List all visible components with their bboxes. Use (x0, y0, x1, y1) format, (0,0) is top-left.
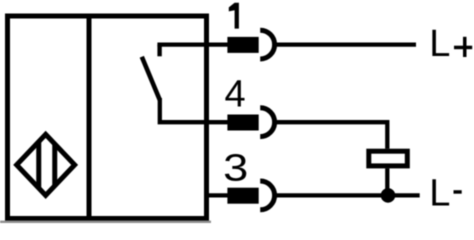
wire pin 1 to L+ (276, 42, 416, 46)
bottom edge artifact (0, 221, 211, 223)
svg-text:L: L (429, 23, 450, 65)
pin 3 socket arc (260, 181, 274, 210)
wire pin 3 to L- (276, 193, 420, 197)
junction dot (381, 188, 396, 203)
pin 1 socket arc (260, 30, 274, 59)
L+ label (429, 23, 472, 65)
L- label (429, 172, 462, 214)
switch contact stub (157, 45, 161, 57)
wire pin 3 stub (204, 193, 228, 197)
wire pin 4 to load (276, 122, 387, 149)
svg-text:L: L (429, 172, 450, 214)
pin 4 contact (227, 115, 258, 131)
switch lever link wire (160, 98, 228, 122)
load resistor (369, 151, 408, 166)
svg-text:3: 3 (223, 146, 248, 189)
pin 3 contact (227, 188, 258, 204)
wire switch output to pin 1 (157, 42, 228, 46)
pin 4 socket arc (260, 108, 274, 137)
wire load to junction (385, 168, 389, 196)
sensor body divider (87, 14, 92, 222)
svg-text:4: 4 (225, 74, 246, 116)
switch lever (142, 57, 160, 100)
pin 1 number label (229, 3, 239, 29)
sensor symbol diamond (17, 131, 75, 199)
sensor body outline (8, 16, 207, 219)
pin 1 contact (227, 37, 258, 53)
